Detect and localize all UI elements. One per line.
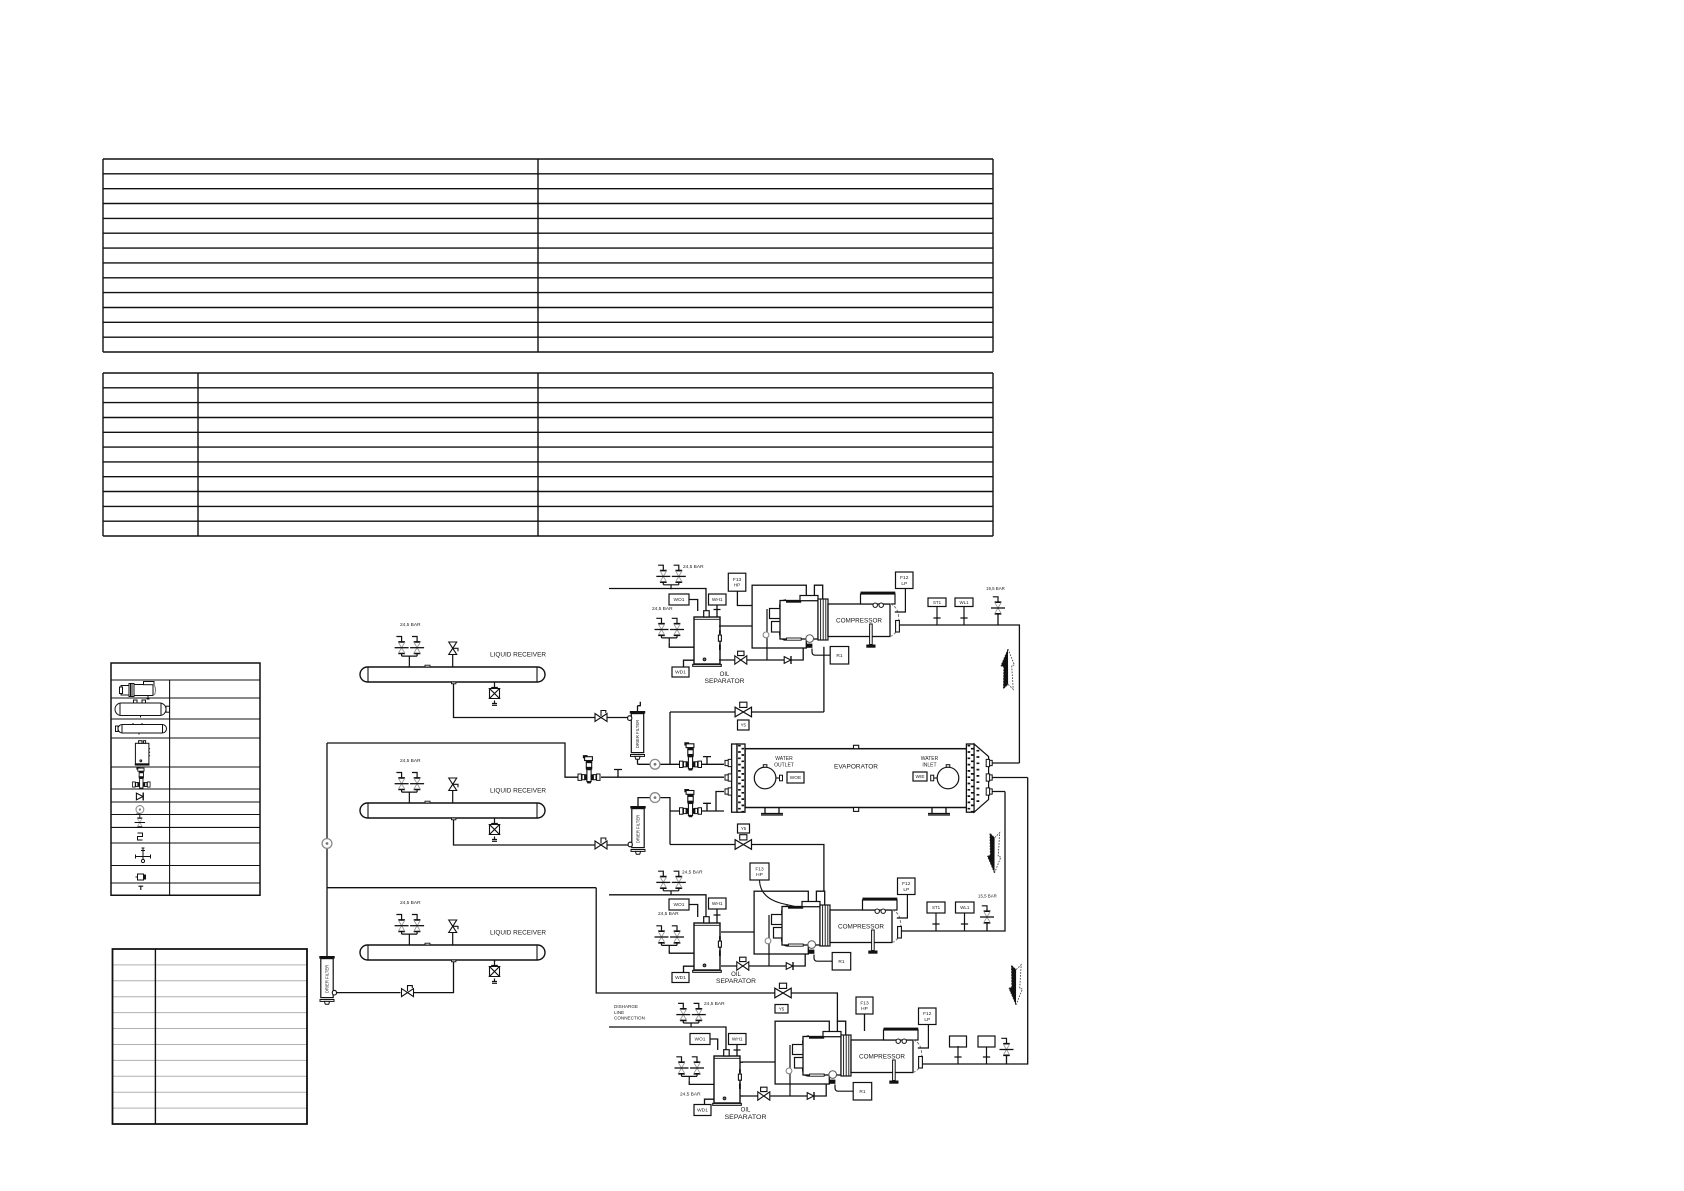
svg-text:HP: HP	[734, 583, 741, 589]
svg-text:Y5: Y5	[779, 1006, 785, 1011]
svg-text:24,5 BAR: 24,5 BAR	[682, 870, 703, 876]
svg-text:WH1: WH1	[712, 901, 723, 907]
svg-text:LP: LP	[901, 581, 907, 587]
svg-text:ST1: ST1	[932, 905, 941, 910]
svg-text:LP: LP	[924, 1017, 930, 1023]
svg-text:SEPARATOR: SEPARATOR	[716, 979, 757, 985]
svg-text:EVAPORATOR: EVAPORATOR	[834, 764, 878, 771]
svg-text:24,5 BAR: 24,5 BAR	[658, 911, 679, 917]
svg-text:WD1: WD1	[675, 975, 686, 981]
svg-text:SEPARATOR: SEPARATOR	[725, 1115, 768, 1121]
svg-text:HP: HP	[756, 872, 763, 878]
svg-text:F12: F12	[902, 881, 911, 887]
svg-text:24,5 BAR: 24,5 BAR	[652, 606, 673, 612]
svg-text:Y5: Y5	[741, 723, 747, 728]
svg-text:WO1: WO1	[695, 1037, 706, 1043]
svg-text:SEPARATOR: SEPARATOR	[705, 679, 746, 685]
svg-text:WATER: WATER	[921, 756, 939, 762]
svg-text:WD1: WD1	[697, 1108, 708, 1114]
svg-text:24,5 BAR: 24,5 BAR	[683, 564, 704, 570]
svg-text:CONNECTION: CONNECTION	[614, 1016, 645, 1021]
svg-text:WIE: WIE	[915, 774, 924, 780]
svg-text:R1: R1	[838, 959, 844, 965]
svg-text:INLET: INLET	[922, 763, 936, 769]
svg-text:WH1: WH1	[712, 597, 723, 603]
svg-text:R1: R1	[859, 1089, 865, 1095]
svg-text:24,5 BAR: 24,5 BAR	[400, 622, 421, 628]
svg-text:24,5 BAR: 24,5 BAR	[400, 900, 421, 906]
svg-text:19,5 BAR: 19,5 BAR	[986, 586, 1005, 591]
svg-text:LIQUID RECEIVER: LIQUID RECEIVER	[490, 788, 546, 795]
svg-text:ST1: ST1	[933, 600, 942, 605]
svg-text:HP: HP	[861, 1006, 868, 1012]
svg-text:WOE: WOE	[790, 775, 801, 781]
svg-text:F13: F13	[755, 866, 764, 872]
svg-text:F13: F13	[860, 1000, 869, 1006]
svg-text:R1: R1	[836, 653, 842, 659]
svg-text:WL1: WL1	[960, 905, 970, 910]
svg-text:WL1: WL1	[959, 600, 969, 605]
svg-text:LINE: LINE	[614, 1010, 624, 1015]
svg-text:LIQUID RECEIVER: LIQUID RECEIVER	[490, 652, 546, 659]
svg-text:F12: F12	[923, 1011, 932, 1017]
svg-text:LIQUID RECEIVER: LIQUID RECEIVER	[490, 930, 546, 937]
svg-text:WATER: WATER	[775, 756, 793, 762]
svg-text:WO1: WO1	[674, 597, 685, 603]
svg-text:OUTLET: OUTLET	[774, 763, 794, 769]
svg-text:24,5 BAR: 24,5 BAR	[704, 1001, 725, 1007]
svg-text:F13: F13	[733, 577, 742, 583]
svg-text:24,5 BAR: 24,5 BAR	[400, 758, 421, 764]
svg-text:24,5 BAR: 24,5 BAR	[680, 1092, 701, 1098]
svg-text:WO1: WO1	[674, 902, 685, 908]
svg-text:OIL: OIL	[720, 672, 730, 678]
svg-text:OIL: OIL	[741, 1108, 751, 1114]
svg-text:WD1: WD1	[675, 670, 686, 676]
svg-text:15,5 BAR: 15,5 BAR	[978, 894, 997, 899]
svg-text:OIL: OIL	[731, 972, 741, 978]
svg-text:WH1: WH1	[732, 1037, 743, 1043]
svg-text:Y5: Y5	[741, 826, 747, 831]
svg-text:F12: F12	[900, 575, 909, 581]
svg-text:DISHARGE: DISHARGE	[614, 1004, 638, 1009]
svg-text:LP: LP	[903, 887, 909, 893]
